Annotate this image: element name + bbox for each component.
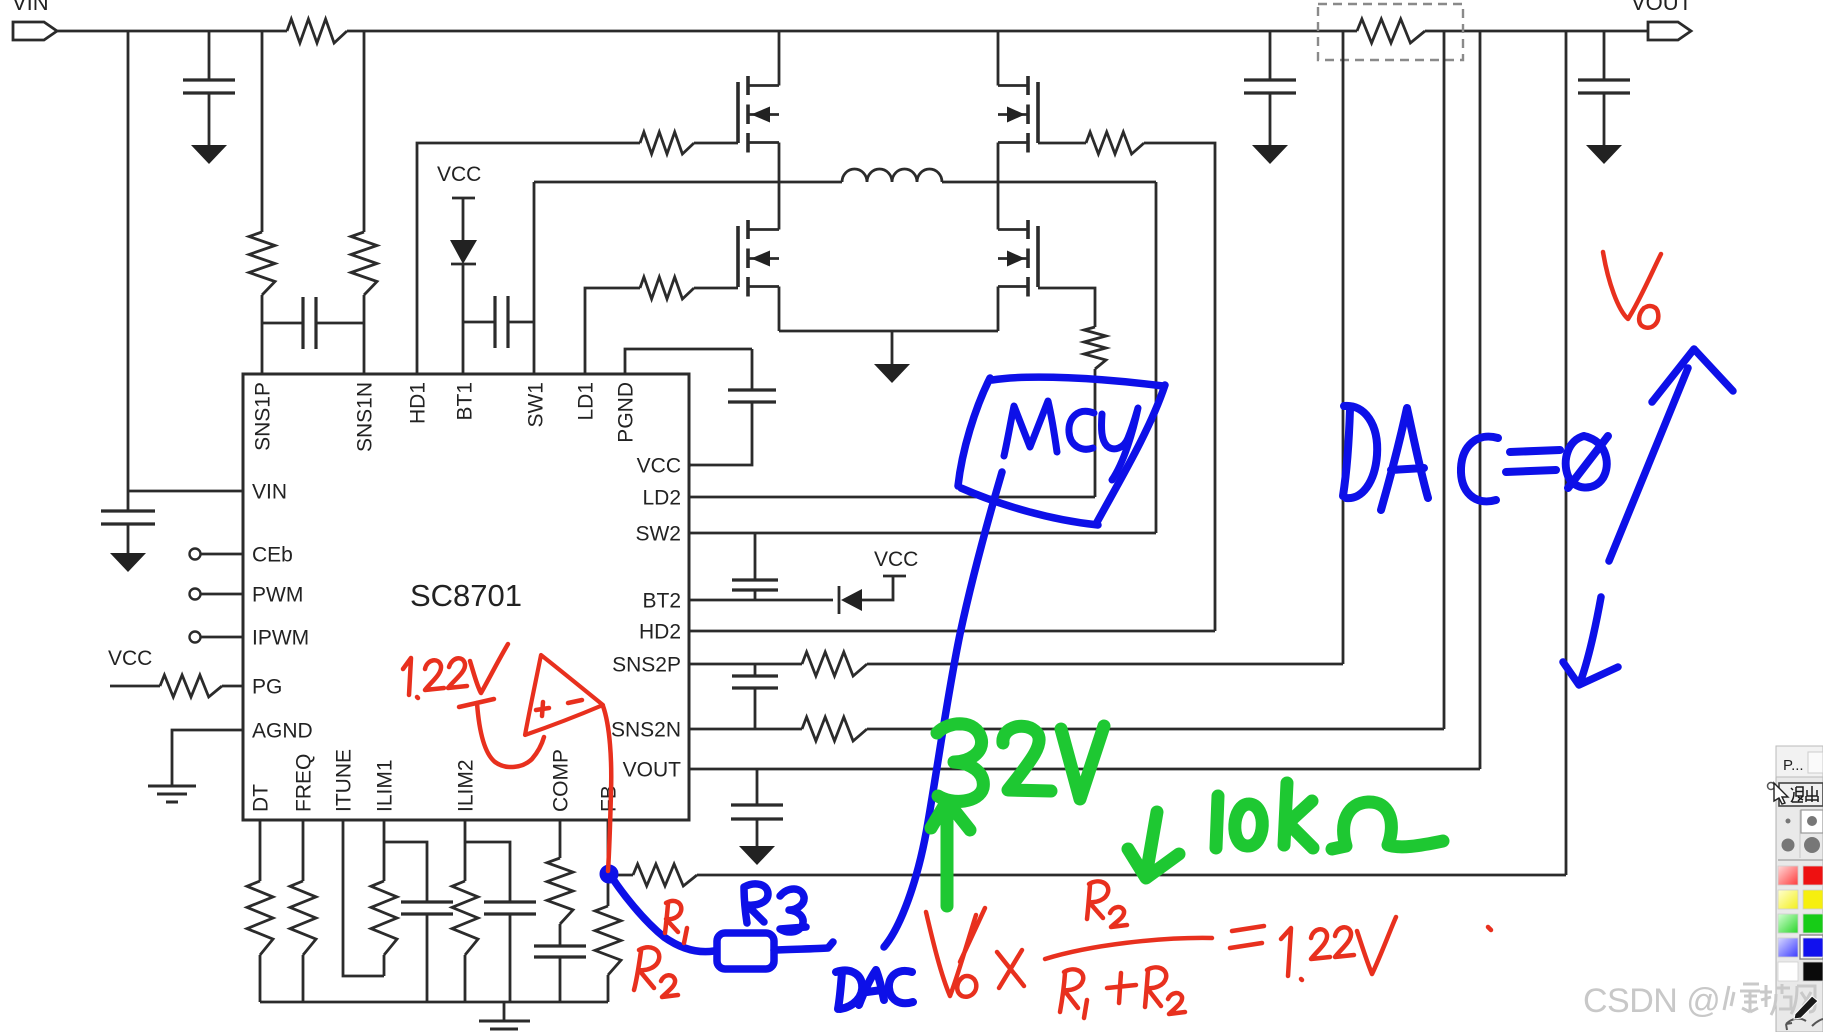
- wire R_HD2 to HD2 riser: [1144, 143, 1215, 631]
- wire VCC pin (drawn with C_VCC above) label only: [689, 464, 691, 467]
- svg-text:VIN: VIN: [252, 481, 287, 504]
- ground symbol below C_VOUT: [739, 846, 775, 865]
- value label R3 (blue handwriting): [744, 884, 768, 923]
- svg-text:PGND: PGND: [615, 382, 638, 443]
- wire SNS1P column: [261, 31, 264, 374]
- resistor R_HD2 gate: [1086, 132, 1144, 154]
- wire PGND pin: [625, 349, 752, 374]
- wire HD1 pin to gate resistor: [417, 143, 640, 374]
- diode D2 VCC to BT2: [838, 586, 841, 614]
- toolbar bottom arrows (cut off): [1786, 1019, 1823, 1030]
- svg-text:SW2: SW2: [635, 523, 681, 546]
- resistor R_DT: [247, 881, 273, 955]
- svg-text:HD2: HD2: [639, 621, 681, 644]
- wire SW2 line: [689, 532, 1156, 535]
- wire R_LD1 to Q2 gate: [694, 287, 738, 290]
- capacitor C_SNS2: [732, 676, 778, 688]
- svg-text:CEb: CEb: [252, 544, 293, 567]
- wire SNS2N line left: [689, 728, 802, 731]
- wire Q1 source to SW1 node: [778, 143, 781, 183]
- wire SNS2N riser: [1443, 31, 1446, 729]
- wire C_BT2 to BT2 line: [754, 590, 757, 600]
- wire FB pin to divider node: [607, 820, 610, 875]
- svg-text:PG: PG: [252, 676, 282, 699]
- wire HD2 line: [689, 630, 1215, 633]
- wire VOUT to C_VOUT: [756, 769, 759, 805]
- wire C_VIN1 to ground: [208, 93, 211, 145]
- wire Q3 source to SW2: [997, 143, 1000, 183]
- wire C_OUT1 to ground: [1269, 93, 1272, 145]
- capacitor C_ILIM2: [484, 902, 536, 914]
- wire ITUNE pin: [343, 820, 384, 976]
- wire C_ILIM2 to rail: [509, 914, 512, 1002]
- resistor R_LD1 gate: [640, 277, 694, 299]
- svg-text:VOUT: VOUT: [1631, 0, 1692, 15]
- svg-text:BT1: BT1: [454, 382, 477, 421]
- wire reference to op-amp + input (red): [477, 703, 544, 767]
- svg-text:LD1: LD1: [575, 382, 598, 421]
- wire source bus to ground: [891, 331, 894, 364]
- net label DAC (blue handwriting): [836, 971, 862, 1010]
- wire ILIM2 pin: [464, 820, 467, 1002]
- ground symbol AGND: [148, 786, 196, 802]
- svg-text:SNS2P: SNS2P: [612, 654, 681, 677]
- wire Q4 drain to SW2: [997, 182, 1000, 230]
- transistor Q3 high-side boost NMOS: [1036, 82, 1040, 143]
- wire ILIM1 branch to C_ILIM1: [384, 842, 427, 902]
- svg-text:P...: P...: [1783, 757, 1804, 774]
- wire low-side source bus: [779, 330, 998, 333]
- wire AGND pin: [172, 730, 243, 786]
- wire COMP pin: [559, 820, 562, 946]
- wire BT2 line: [689, 599, 833, 602]
- ground symbol power stage: [874, 364, 910, 383]
- toolbar annotation tool panel: [1776, 746, 1823, 1032]
- dashed highlight box around R_SNS2: [1318, 4, 1463, 60]
- svg-text:COMP: COMP: [550, 749, 573, 812]
- diode D1 VCC to BT1: [450, 240, 477, 264]
- capacitor C_VOUT: [731, 805, 783, 819]
- resistor R_ILIM2: [452, 881, 478, 955]
- svg-text:VIN: VIN: [12, 0, 49, 15]
- resistor output sense R_SNS2: [1357, 19, 1425, 43]
- resistor R_SNS2N filter: [802, 717, 867, 741]
- cursor pen icon: [1794, 996, 1818, 1019]
- wire Q4 gate jog: [1038, 288, 1095, 327]
- svg-text:VCC: VCC: [637, 455, 681, 478]
- ground symbol below C_OUT1: [1252, 145, 1288, 164]
- resistor R_ILIM1: [371, 881, 397, 955]
- value label R2 (red handwriting): [634, 947, 678, 997]
- wire C_SNS1 to SNS1N: [316, 322, 364, 325]
- wire C_SNS2 to SNS2N: [754, 688, 757, 729]
- svg-text:IPWM: IPWM: [252, 627, 309, 650]
- wire output cap 1 drop: [1269, 31, 1272, 80]
- inductor L1: [842, 169, 942, 182]
- wire op-amp output to FB (red): [603, 706, 611, 871]
- svg-text:SNS1N: SNS1N: [354, 382, 377, 452]
- wire D2 anode to VCC stub: [862, 577, 893, 600]
- pin circle PWM: [190, 589, 201, 600]
- svg-text:SC8701: SC8701: [410, 578, 522, 613]
- wire C_VCC to VCC pin: [689, 402, 752, 465]
- svg-text:BT2: BT2: [642, 590, 681, 613]
- wire C_COMP to rail: [559, 957, 562, 1002]
- wire Q2 source down: [778, 287, 781, 332]
- svg-text:ITUNE: ITUNE: [333, 749, 356, 812]
- svg-text:SNS2N: SNS2N: [611, 719, 681, 742]
- wire FREQ pin: [302, 820, 305, 1002]
- svg-text:FREQ: FREQ: [293, 754, 316, 812]
- wire DAC output line (blue hand-drawn): [884, 472, 1002, 947]
- wire SNS2N line right: [867, 728, 1444, 731]
- transistor Q2 low-side buck NMOS: [736, 226, 740, 287]
- wire Q1 drain to top rail: [778, 31, 781, 86]
- wire rail ground stub: [503, 1002, 506, 1021]
- wire SNS2P to C_SNS2: [754, 664, 757, 676]
- svg-text:LD2: LD2: [642, 487, 681, 510]
- capacitor C_OUT1: [1244, 80, 1296, 93]
- wire R2 to rail: [607, 975, 610, 1002]
- ground symbol bottom rail: [479, 1021, 530, 1029]
- svg-text:VCC: VCC: [108, 647, 152, 670]
- resistor R2 feedback bottom: [607, 875, 610, 906]
- wire R1 to VOUT sense: [697, 874, 1566, 877]
- wire Q3 gate to resistor: [1038, 142, 1086, 145]
- capacitor C_VIN2: [101, 511, 155, 524]
- resistor R_PG pullup: [160, 675, 222, 697]
- wire LD2 line: [689, 496, 1095, 499]
- transistor Q1 high-side buck NMOS: [736, 82, 740, 143]
- resistor R_FREQ: [290, 881, 316, 955]
- wire analog ground rail: [260, 1001, 608, 1004]
- capacitor C_ILIM1: [401, 902, 453, 914]
- wire Q3 drain to top rail: [997, 31, 1000, 86]
- resistor R_COMP: [547, 858, 573, 924]
- toolbar exit button: [1768, 783, 1823, 807]
- wire R_HD1 to Q1 gate: [694, 142, 738, 145]
- wire Q4 source down: [997, 287, 1000, 332]
- node VOUT output connector: [1648, 22, 1691, 40]
- power stub VCC for D2: [883, 575, 906, 578]
- power stub VCC for D1: [452, 198, 475, 240]
- value label R1 (red handwriting): [665, 901, 687, 943]
- node VIN input connector: [13, 22, 57, 40]
- svg-text:VCC: VCC: [874, 548, 918, 571]
- wire C_OUT2 to ground: [1603, 93, 1606, 145]
- svg-text:CSDN @: CSDN @: [1583, 982, 1720, 1020]
- wire PWM: [201, 593, 244, 596]
- value label 32V (green handwriting): [937, 724, 983, 802]
- ground symbol below C_OUT2: [1586, 145, 1622, 164]
- wire C_VOUT to ground: [756, 819, 759, 846]
- capacitor C_VCC decoupling: [728, 390, 776, 402]
- wire FB node to R1: [608, 874, 633, 877]
- resistor R1 feedback top: [633, 864, 697, 886]
- wire VOUT sense riser: [1479, 31, 1482, 769]
- component R3 DAC series resistor (blue hand-drawn): [611, 876, 714, 952]
- svg-text:VCC: VCC: [437, 163, 481, 186]
- watermark CSDN username: [1583, 982, 1815, 1020]
- wire VIN top rail: [57, 30, 1648, 33]
- wire to C_VIN1: [208, 31, 211, 80]
- annotation green arrow up (32V): [931, 801, 970, 906]
- capacitor C_BT2 bootstrap: [732, 580, 778, 590]
- wire SW1 node horizontal: [534, 181, 1156, 184]
- svg-text:VOUT: VOUT: [623, 759, 682, 782]
- resistor input sense R_SNS1: [287, 19, 347, 43]
- ground symbol below C_VIN2: [110, 553, 146, 572]
- annotation blue arrow up to VOUT: [1609, 349, 1733, 561]
- wire R_LD2 to LD2 line: [1094, 369, 1097, 497]
- component 1.22V reference source (red T bar): [459, 699, 494, 707]
- svg-text:SW1: SW1: [525, 382, 548, 428]
- wire SNS2P line left: [689, 663, 802, 666]
- net label MCU (blue handwriting): [1004, 401, 1057, 456]
- value label 10kohm (green handwriting): [1216, 796, 1218, 848]
- ground symbol below C_VIN1: [191, 145, 227, 164]
- wire C_VIN2 to ground: [127, 524, 130, 553]
- wire PGND to C_VCC: [751, 349, 754, 390]
- pin circle CEb: [190, 549, 201, 560]
- capacitor C_BT1 bootstrap: [495, 296, 508, 348]
- toolbar color swatches: [1778, 866, 1823, 981]
- wire IPWM: [201, 636, 244, 639]
- capacitor C_OUT2: [1578, 80, 1630, 93]
- wire Q2 drain to SW1: [778, 182, 781, 230]
- capacitor C_SNS1: [303, 297, 316, 349]
- toolbar pen size selector: [1778, 810, 1823, 860]
- svg-text:PWM: PWM: [252, 584, 303, 607]
- wire DT pin: [259, 820, 262, 1002]
- value label 1.22V (red handwriting): [403, 658, 418, 698]
- wire BT1 to C_BT1: [463, 321, 495, 324]
- wire SW2 to C_BT2: [754, 533, 757, 580]
- wire R_PG to PG pin: [222, 685, 243, 688]
- resistor R_LD2 gate: [1084, 327, 1106, 369]
- wire VIN branch to IC VIN pin: [128, 31, 243, 511]
- formula Vo x R2/(R1+R2) = 1.22V (red handwriting): [926, 908, 985, 996]
- svg-text:ILIM1: ILIM1: [374, 759, 397, 812]
- wire ILIM1 pin: [383, 820, 386, 976]
- transistor Q4 low-side boost NMOS: [1036, 226, 1040, 287]
- resistor R_SNS2P filter: [802, 652, 867, 676]
- wire SNS1N column: [363, 31, 366, 374]
- wire D1 cathode to BT1 pin: [462, 264, 465, 374]
- wire VCC stub to R_PG: [110, 685, 160, 688]
- resistor R_SNS1P filter: [249, 232, 275, 295]
- svg-text:DT: DT: [250, 784, 273, 812]
- wire SW1 pin riser: [533, 182, 536, 374]
- net label DAC=0 (blue handwriting): [1343, 406, 1377, 498]
- wire VOUT pin line: [689, 768, 1480, 771]
- wire CEb: [201, 553, 244, 556]
- cursor arrow on exit button: [1774, 783, 1788, 804]
- resistor R_SNS1N filter: [351, 232, 377, 295]
- net label Vo (red handwriting, top right): [1603, 252, 1661, 319]
- resistor R_HD1 gate: [640, 132, 694, 154]
- capacitor C_COMP: [534, 946, 586, 957]
- wire FB divider riser: [1565, 31, 1568, 875]
- wire output cap 2 drop: [1603, 31, 1606, 80]
- wire C_ILIM1 to rail: [426, 914, 429, 1002]
- svg-text:SNS1P: SNS1P: [252, 382, 275, 451]
- op-amp U1 SC8701 controller IC body: [243, 374, 689, 820]
- wire LD1 pin to gate resistor: [585, 288, 640, 374]
- wire SNS1P to C_SNS1: [262, 322, 303, 325]
- capacitor C_VIN1: [183, 80, 235, 93]
- op-amp U_EA error amp sketch (red): [525, 655, 603, 735]
- wire SNS2P line right: [867, 663, 1343, 666]
- svg-text:AGND: AGND: [252, 720, 313, 743]
- node MCU annotation box (blue hand-drawn): [958, 377, 1165, 525]
- wire ILIM2 branch to C_ILIM2: [465, 842, 510, 902]
- wire SW2 riser: [1155, 182, 1158, 533]
- svg-text:ILIM2: ILIM2: [455, 759, 478, 812]
- svg-text:HD1: HD1: [407, 382, 430, 424]
- wire SNS2P riser: [1342, 31, 1345, 664]
- wire C_BT1 to SW1: [508, 321, 534, 324]
- annotation blue arrow down small: [1563, 597, 1618, 685]
- pin circle IPWM: [190, 632, 201, 643]
- annotation green arrow down (10k): [1128, 812, 1179, 878]
